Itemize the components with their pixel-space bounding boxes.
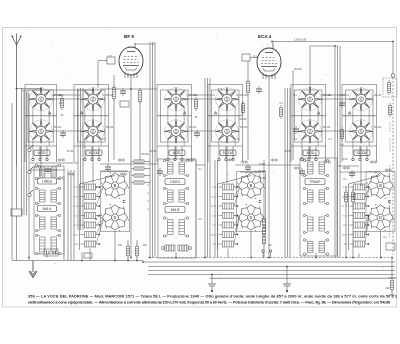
wire fan G1 (96, 187, 104, 244)
svg-text:CEI: CEI (386, 287, 390, 290)
coil L4 (81, 213, 100, 219)
phono jack right edge (386, 258, 397, 296)
band switch wafer G1c (101, 172, 129, 199)
svg-text:B: B (114, 183, 117, 188)
wire drop col1 (40, 146, 42, 176)
pilot lamp P1 below bus (208, 275, 216, 293)
coil L17 (350, 203, 369, 209)
label box T1 (38, 206, 57, 212)
IF transformer T11 (303, 239, 328, 255)
svg-text:25 13: 25 13 (73, 206, 79, 208)
stage frame S1 (25, 85, 57, 147)
wire mid band d (235, 164, 300, 166)
svg-text:25 13: 25 13 (342, 206, 348, 208)
resistor ladder R6-R9 (132, 160, 151, 184)
wire star tip links upper columns (33, 107, 369, 146)
wire fan G3 (365, 187, 369, 244)
coil L3 (81, 203, 100, 209)
wire drop col3 (175, 146, 177, 159)
value labels (59, 55, 388, 247)
svg-text:0.25: 0.25 (343, 158, 348, 161)
svg-text:10 50: 10 50 (342, 197, 348, 199)
trimmer box below S4 (220, 150, 236, 156)
coil L13 (219, 232, 238, 238)
wire coil lead (349, 224, 350, 226)
wire bundle a (78, 88, 83, 230)
coil L18 (350, 213, 369, 219)
trimmer box below S3 (169, 150, 185, 156)
wire bus 5 (148, 274, 395, 276)
wire link row1 c (321, 98, 349, 100)
pilot lamp P2 below bus (283, 267, 291, 293)
label box T8 (305, 179, 325, 185)
wire oscillator box lead (250, 57, 259, 59)
node terminals S2 (84, 147, 100, 161)
stage frame S3 (157, 85, 192, 147)
output coils T7 (162, 245, 192, 251)
resistor R4 right edge (387, 80, 390, 95)
svg-text:5.000: 5.000 (259, 163, 266, 166)
svg-text:B: B (250, 183, 253, 188)
wire mid band c (196, 164, 205, 166)
svg-text:MOD.: MOD. (38, 151, 47, 155)
wire link row1 c2 (321, 94, 349, 96)
resistor ladder G2 R12-R14 (262, 160, 265, 258)
node terminals S4 (218, 147, 234, 161)
svg-text:D: D (379, 215, 382, 220)
wire G1 bank top (80, 176, 116, 185)
svg-text:10 50: 10 50 (73, 197, 79, 199)
wire G3 bank top (349, 176, 381, 185)
band switch wafer S2b (81, 119, 105, 143)
wire bus 4 (148, 270, 395, 272)
coil L16 (350, 194, 369, 200)
wire link row2 a (52, 130, 81, 132)
wire mid band h (240, 171, 264, 173)
wire drop col6 (360, 146, 362, 186)
resistor R11 (135, 244, 138, 258)
wire bus dashed (148, 257, 395, 259)
label box T4 (165, 179, 185, 185)
coil L15 (350, 184, 369, 190)
svg-text:elettrodinamico a cono equipot: elettrodinamico a cono equipotenziale. —… (28, 299, 391, 304)
coil L7 (81, 241, 100, 247)
wire fan G2 (234, 187, 240, 244)
wire mid band e (337, 165, 359, 167)
wire top of stage 1 (17, 88, 42, 90)
wire coil lead (80, 234, 81, 236)
wire left stack right verticals (68, 170, 74, 261)
svg-text:51.13A: 51.13A (357, 151, 368, 155)
node terminals S6 (352, 147, 368, 161)
ground (29, 261, 37, 278)
gap components upper band (60, 96, 345, 141)
wire bundle f (335, 46, 340, 258)
label box T5 (165, 207, 185, 213)
wire G3 wafers to bus (380, 231, 382, 258)
coil L20 (350, 232, 369, 238)
switch contacts mid strip (34, 159, 392, 179)
wire link row1 b2 (187, 94, 215, 96)
IF transformer T8 (303, 159, 328, 176)
svg-text:100 1: 100 1 (342, 235, 348, 237)
coil bank bus G1 (79, 184, 81, 250)
wire bus 2 (143, 261, 395, 263)
junction box on ground bus (84, 253, 92, 258)
trimmer box below S1 (34, 150, 50, 156)
wire coil lead (218, 243, 219, 245)
coil box right edge (386, 243, 395, 250)
svg-text:mm: mm (218, 98, 222, 101)
wire mid band g (100, 170, 128, 172)
resistor R10 (126, 244, 129, 258)
right edge extra dashes (389, 165, 391, 238)
coil bank bus G2 (217, 184, 219, 250)
IF transformer T4 (163, 159, 188, 176)
svg-text:LINEA: LINEA (42, 179, 53, 183)
stage frame S5 (291, 85, 326, 147)
svg-text:50.000: 50.000 (141, 153, 149, 156)
wire coil lead (349, 186, 350, 188)
svg-text:MOD.: MOD. (307, 151, 316, 155)
svg-text:MOD.: MOD. (173, 151, 182, 155)
wire right edge dashed (392, 77, 394, 255)
wire bundle left (22, 89, 30, 261)
IF transformer T9 (303, 187, 328, 204)
svg-text:DIODI: DIODI (170, 180, 179, 184)
svg-text:15.000: 15.000 (258, 177, 266, 180)
band switch wafer S6a (349, 87, 373, 111)
wire bundle b (150, 42, 155, 258)
svg-text:51.13A: 51.13A (240, 126, 248, 129)
IF transformer T5 (163, 187, 188, 204)
band switch wafer S5a (298, 87, 322, 111)
wire G1 wafers to bus (114, 231, 116, 261)
wire coil lead (349, 196, 350, 198)
wire coil lead (218, 196, 219, 198)
IF transformer T1 (35, 187, 60, 204)
coil L9 (219, 194, 238, 200)
coil bank labels (73, 187, 348, 246)
band switch wafer S1b (29, 119, 53, 143)
wire R10 R11 to bus (128, 240, 137, 261)
resistor R1 (112, 85, 116, 101)
svg-text:51.5A: 51.5A (67, 150, 74, 153)
svg-text:ECA 4: ECA 4 (258, 34, 272, 39)
svg-text:546 B: 546 B (171, 208, 181, 212)
oscillator box ECH4 (242, 54, 250, 61)
wire drop col4 (226, 146, 228, 183)
wire EF9 coupling lead2 (97, 61, 99, 89)
wire ECH4 leads (248, 61, 293, 258)
wire right stack to bus (315, 253, 317, 258)
band switch wafer G2d (237, 204, 265, 231)
wire frame corner drops (25, 146, 377, 162)
svg-text:50.000: 50.000 (294, 68, 302, 71)
svg-text:TRASF: TRASF (309, 180, 320, 184)
wire right edge drop (392, 42, 394, 74)
capacitor C2 (256, 86, 262, 94)
wire bundle e (285, 88, 290, 258)
IF transformer T6 (163, 217, 188, 237)
stage frame S2 (74, 85, 109, 147)
svg-text:10 50: 10 50 (211, 197, 217, 199)
band switch wafer S4b (215, 119, 239, 143)
tube V1 EF9 (119, 43, 143, 78)
coil L6 (81, 232, 100, 238)
transformer stack left frame (34, 166, 64, 254)
wire drop col2 (92, 146, 94, 183)
svg-text:25.13A: 25.13A (240, 94, 248, 97)
coil L1 (81, 184, 100, 190)
trimmer box below S2 (86, 150, 102, 156)
wire mid band a (30, 162, 78, 164)
svg-text:D: D (249, 215, 252, 220)
svg-text:100: 100 (143, 244, 148, 247)
node antenna tap contacts (28, 145, 33, 197)
wire ECH4 top line to AVC (273, 42, 393, 46)
wire coil lead (80, 215, 81, 217)
wire coil lead (218, 186, 219, 188)
stage frame S6 (342, 85, 377, 147)
band switch wafer G1d (101, 204, 129, 231)
wire left stack to bus (47, 176, 64, 261)
node terminals S5 (301, 147, 317, 161)
wire coil lead (349, 243, 350, 245)
right edge dashes (389, 122, 391, 152)
coil L5 (81, 222, 100, 228)
IF transformer T0 (35, 164, 60, 179)
wire bus 3 (148, 266, 395, 268)
label box LINEA (38, 178, 57, 184)
wire frames lower wafer groups (101, 172, 396, 232)
svg-text:51.13A: 51.13A (223, 151, 234, 155)
antenna switch box (11, 209, 22, 261)
band switch wafer G3c (367, 172, 395, 199)
band switch wafer G2c (237, 172, 265, 199)
wire antenna lead-in (16, 165, 18, 209)
resistor R15 (344, 190, 347, 204)
wire coil bank drops (82, 249, 359, 261)
svg-text:51.13A: 51.13A (106, 126, 114, 129)
output transformer T3 (35, 234, 60, 254)
svg-text:D: D (113, 215, 116, 220)
wire coil lead (349, 215, 350, 217)
gap labels upper band (60, 95, 345, 147)
band switch wafer S3b (164, 119, 188, 143)
coil L21 (350, 241, 369, 247)
svg-text:50.000: 50.000 (239, 119, 247, 121)
band switch wafer S3a (164, 87, 188, 111)
wire coil lead (218, 224, 219, 226)
band switch wafer S2a (81, 87, 105, 111)
wire grid cap EF9 (135, 43, 155, 45)
svg-text:51.5A: 51.5A (150, 150, 157, 153)
svg-text:25.13A: 25.13A (106, 94, 114, 97)
svg-text:51.13A: 51.13A (189, 126, 197, 129)
band switch wafer G3d (367, 204, 395, 231)
svg-text:359 — LA VOCE DEL PADRONE — Mo: 359 — LA VOCE DEL PADRONE — Mod. MARCONI… (28, 293, 398, 298)
trimmer box below S6 (354, 150, 370, 156)
svg-text:51.13A: 51.13A (323, 126, 331, 129)
svg-text:546 A: 546 A (43, 207, 52, 211)
IF transformer T2 (35, 214, 60, 231)
wire coil lead (349, 205, 350, 207)
band switch wafer S5b (298, 119, 322, 143)
resistor R5 right edge (388, 103, 391, 117)
svg-text:25.13A: 25.13A (323, 94, 331, 97)
band switch wafer S6b (349, 119, 373, 143)
coupling box EF9 (107, 57, 115, 64)
capacitors mid strip (45, 164, 355, 178)
wire R15 R16 leads (346, 186, 353, 258)
wire second top line (310, 46, 337, 88)
svg-text:51.13A: 51.13A (54, 126, 62, 129)
coil L12 (219, 222, 238, 228)
svg-text:300: 300 (118, 244, 123, 247)
wire G2 wafers to bus (250, 231, 252, 258)
capacitor C1 (120, 88, 126, 96)
wire link row1 b (187, 98, 215, 100)
transformer stack right frame (300, 158, 337, 256)
stage frame S4 (208, 85, 243, 147)
wire G2 bank top (218, 176, 252, 185)
wire coil lead (80, 205, 81, 207)
wire coil lead (80, 186, 81, 188)
wire under EF9 (100, 88, 157, 90)
svg-text:5.000: 5.000 (339, 95, 345, 97)
svg-text:47.5: 47.5 (218, 88, 223, 91)
coil L8 (219, 184, 238, 190)
node terminals S1 (32, 147, 48, 161)
coil L10 (219, 203, 238, 209)
resistor R2 (138, 88, 142, 104)
wire top of stage 2 (22, 89, 94, 91)
trimmer box below S5 (303, 150, 319, 156)
wire mid band b (100, 163, 158, 165)
wire bus ground left (12, 260, 143, 262)
resistor R16 (351, 190, 354, 204)
wire link row2 c (321, 130, 349, 132)
wire mid stack to bus (176, 160, 196, 258)
antenna (12, 34, 22, 166)
wire bundle c (205, 78, 210, 258)
node terminals S3 (167, 147, 183, 161)
resistor R3 (246, 79, 250, 95)
tube V2 ECH4 (257, 44, 281, 79)
coil L19 (350, 222, 369, 228)
wire bus 6 (210, 277, 395, 279)
wire coil lead (349, 234, 350, 236)
svg-text:100 1: 100 1 (73, 235, 79, 237)
wire mid band i (340, 171, 380, 173)
svg-text:51.13A: 51.13A (374, 126, 382, 129)
wire EF9 cathode to bus (130, 77, 132, 258)
wire coil lead (218, 234, 219, 236)
svg-text:25.13A: 25.13A (374, 94, 382, 97)
wire leftmost vertical (11, 103, 13, 261)
svg-text:100 1: 100 1 (211, 235, 217, 237)
wire coil lead (80, 196, 81, 198)
svg-text:51.13A: 51.13A (89, 151, 100, 155)
band switch wafer S1a (29, 87, 53, 111)
wire link row1 a2 (52, 94, 81, 96)
wire coil lead (218, 205, 219, 207)
svg-text:1.05 0.05: 1.05 0.05 (294, 38, 307, 42)
wire link row1 a (52, 98, 81, 100)
wire coil lead (80, 243, 81, 245)
band switch wafer S4a (215, 87, 239, 111)
node antenna trimmer terminal (391, 74, 395, 78)
wire link row2 b (187, 130, 215, 132)
stage value labels (54, 94, 382, 129)
screen resistor box EF9 (120, 101, 129, 107)
transformer stack middle frame (158, 159, 196, 258)
wire bundle d (215, 160, 218, 258)
svg-text:51.5A: 51.5A (285, 150, 292, 153)
wire coil lead (218, 215, 219, 217)
plug contacts on dashed bus (262, 250, 272, 258)
svg-text:BF 9: BF 9 (124, 34, 134, 39)
wire mid band f (30, 169, 65, 171)
svg-text:25 13: 25 13 (211, 206, 217, 208)
coil L14 (219, 241, 238, 247)
IF transformer T10 (303, 214, 328, 233)
wire EF9 left leads (114, 75, 140, 160)
coil L11 (219, 213, 238, 219)
wire drop col5 (309, 146, 311, 158)
wire coil lead (80, 224, 81, 226)
capacitor block near ground (44, 249, 58, 256)
coil bank bus G3 (348, 184, 350, 250)
trimmer dashed box (383, 78, 397, 97)
svg-text:B: B (379, 183, 382, 188)
coil L2 (81, 194, 100, 200)
